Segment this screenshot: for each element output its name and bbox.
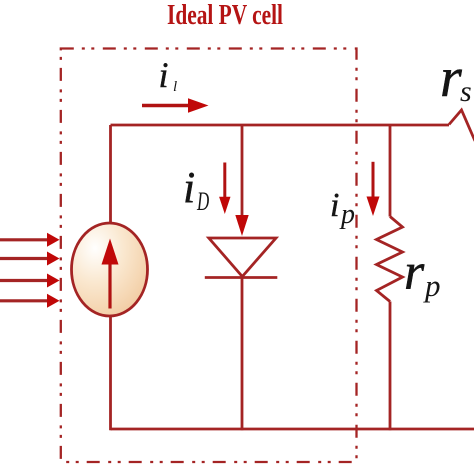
svg-text:p: p [423,268,441,303]
resistor r_p (zigzag) [377,217,403,302]
diode cathode bar [205,276,277,279]
svg-text:i: i [330,187,339,224]
photon arrow 1 [0,233,60,247]
label r_s [440,47,472,109]
wire: diode branch bottom [241,278,244,431]
svg-text:Ideal PV cell: Ideal PV cell [167,0,283,31]
label i_p [330,187,355,230]
photon arrow 3 [0,274,60,288]
photon arrow 2 [0,252,60,266]
svg-text:D: D [196,186,209,216]
resistor r_s (zigzag, clipped at right edge) [449,110,474,141]
wire: rp branch top [389,125,392,217]
svg-text:s: s [460,75,472,108]
current arrow i_p [367,162,380,216]
svg-text:l: l [173,79,177,95]
current arrow i_l [142,98,209,113]
bottom wire (return node) [111,428,474,431]
wire: left branch top (source to top node) [109,125,112,224]
svg-text:i: i [183,163,195,212]
photon arrow 4 [0,294,60,308]
wire: rp branch bottom [389,302,392,431]
wire: left branch bottom [109,315,112,430]
current source arrow (up) [102,239,119,309]
wire: diode branch top [241,125,244,218]
diode D (triangle) [209,238,276,277]
label i_D [183,163,209,216]
label r_p [404,244,441,303]
on-wire arrowhead into diode [235,215,248,236]
svg-text:p: p [339,199,355,230]
current source I_ph (circle) [72,223,148,316]
dash-dot-dot border box (Ideal PV cell boundary) [61,49,357,463]
current arrow i_D [219,163,230,215]
svg-text:r: r [404,244,425,301]
svg-text:i: i [159,55,169,95]
label i_l [159,55,178,95]
top wire (node between source, diode, rp and rs) [111,124,450,127]
svg-text:r: r [440,47,462,109]
